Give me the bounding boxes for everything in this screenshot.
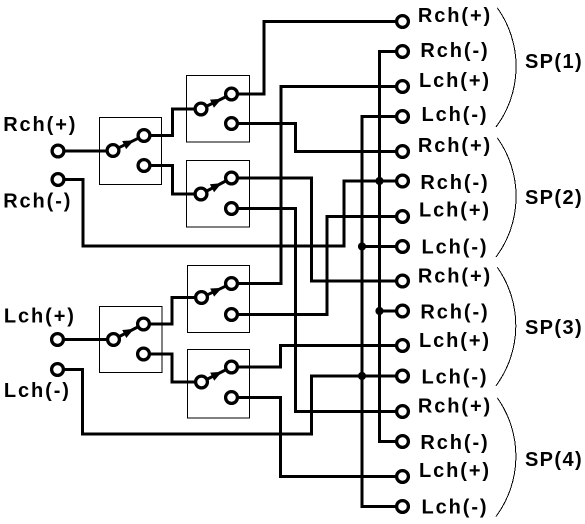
switch S2 (Rch SP1/SP2): [187, 76, 250, 143]
svg-text:Rch(+): Rch(+): [418, 265, 492, 287]
output terminal SP(4) Rch(-): [397, 436, 409, 448]
brace for group SP(4): [496, 398, 516, 517]
svg-text:SP(2): SP(2): [525, 187, 583, 209]
wire S6 top output to SP(3) Lch(+) terminal: [232, 346, 397, 368]
svg-text:Rch(+): Rch(+): [418, 396, 492, 418]
wire stub to SP(3) Rch(-) terminal: [380, 310, 397, 313]
output terminal SP(2) Lch(-): [397, 241, 409, 253]
wire Lch(-) input bus feed (down, across y=433.5, up to y=376, to SP3 Lch(-)): [58, 370, 397, 435]
svg-text:Lch(+): Lch(+): [4, 306, 76, 328]
switch S4 (Lch selector A/B): [100, 307, 163, 373]
output terminal SP(2) Rch(+): [397, 146, 409, 158]
svg-text:Lch(-): Lch(-): [422, 366, 489, 388]
wire S4 bottom output to S6 common: [144, 354, 202, 382]
svg-text:Lch(+): Lch(+): [419, 330, 491, 352]
wire stub to SP(2) Lch(-) terminal: [362, 245, 397, 248]
wire S4 top output to S5 common: [144, 298, 202, 325]
input terminal Rch(+): [52, 145, 64, 157]
svg-text:SP(3): SP(3): [525, 317, 583, 339]
switch S1 (Rch selector A/B): [100, 118, 162, 185]
svg-text:Rch(-): Rch(-): [420, 302, 489, 324]
svg-text:Rch(+): Rch(+): [418, 135, 492, 157]
brace for group SP(1): [496, 8, 516, 127]
junction dot Rch(-) bus at SP3 Rch(-): [375, 307, 383, 315]
svg-text:Rch(+): Rch(+): [418, 5, 492, 27]
svg-text:Rch(-): Rch(-): [420, 432, 489, 454]
svg-text:Lch(+): Lch(+): [419, 200, 491, 222]
output terminal SP(3) Lch(-): [397, 370, 409, 382]
wire S3 top output to SP(3) Rch(+) terminal: [232, 178, 397, 281]
output terminal SP(1) Rch(+): [397, 16, 409, 28]
svg-text:Lch(+): Lch(+): [419, 70, 491, 92]
output terminal SP(1) Lch(+): [397, 81, 409, 93]
output terminal SP(1) Lch(-): [397, 111, 409, 123]
svg-text:Lch(-): Lch(-): [4, 380, 71, 402]
output terminal SP(3) Rch(-): [397, 305, 409, 317]
input terminal Lch(-): [52, 364, 64, 376]
switch S5 (Lch SP1/SP2): [188, 266, 250, 333]
output terminal SP(2) Rch(-): [397, 175, 409, 187]
output terminal SP(3) Lch(+): [397, 340, 409, 352]
wire S5 bottom output to SP(2) Lch(+) terminal: [232, 217, 397, 315]
switch S6 (Lch SP3/SP4): [188, 350, 250, 419]
output terminal SP(4) Lch(-): [397, 501, 409, 513]
output terminal SP(2) Lch(+): [397, 211, 409, 223]
brace for group SP(2): [496, 138, 516, 257]
wire S1 top output to S2 common: [144, 109, 201, 136]
brace for group SP(3): [496, 268, 516, 386]
svg-text:SP(1): SP(1): [525, 51, 583, 73]
svg-text:Rch(-): Rch(-): [420, 40, 489, 62]
wire S1 bottom output to S3 common: [144, 166, 201, 195]
output terminal SP(4) Lch(+): [397, 471, 409, 483]
svg-text:Lch(-): Lch(-): [422, 236, 489, 258]
output terminal SP(3) Rch(+): [397, 275, 409, 287]
input terminal Lch(+): [52, 334, 64, 346]
wire S5 top output to SP(1) Lch(+) terminal: [232, 87, 397, 284]
svg-text:Lch(-): Lch(-): [422, 496, 489, 518]
wire Rch(-) input bus feed (down, across y=246, up to y=181, to SP1/SP2 Rch(-) node): [58, 180, 397, 247]
wire Lch(-) vertical bus x=362 (SP1 to SP4 Lch(-)): [362, 117, 397, 507]
wire Rch(+) input to S1 common: [58, 150, 113, 153]
junction dot Rch(-) bus at SP2 Rch(-): [375, 177, 383, 185]
junction dot Lch(-) bus at SP2 Lch(-): [358, 242, 366, 250]
output terminal SP(4) Rch(+): [397, 406, 409, 418]
wire Lch(+) input to S4 common: [58, 338, 114, 341]
svg-text:Rch(+): Rch(+): [3, 114, 77, 136]
input terminal Rch(-): [52, 174, 64, 186]
svg-text:SP(4): SP(4): [525, 449, 583, 471]
output terminal SP(1) Rch(-): [397, 46, 409, 58]
switch S3 (Rch SP3/SP4): [187, 161, 250, 228]
svg-text:Rch(-): Rch(-): [420, 172, 489, 194]
wire S3 bottom output to SP(4) Rch(+) terminal: [232, 209, 397, 412]
svg-text:Lch(+): Lch(+): [419, 460, 491, 482]
svg-text:Lch(-): Lch(-): [422, 104, 489, 126]
wire S2 top output to SP(1) Rch(+) terminal: [232, 22, 397, 95]
junction dot Lch(-) bus at SP3 Lch(-): [358, 372, 366, 380]
wire S6 bottom output to SP(4) Lch(+) terminal: [232, 398, 397, 477]
wire S2 bottom output to SP(2) Rch(+) terminal: [232, 124, 397, 152]
svg-text:Rch(-): Rch(-): [3, 190, 72, 212]
wire Rch(-) vertical bus x=380 (SP1 to SP4 Rch(-)): [380, 52, 397, 442]
